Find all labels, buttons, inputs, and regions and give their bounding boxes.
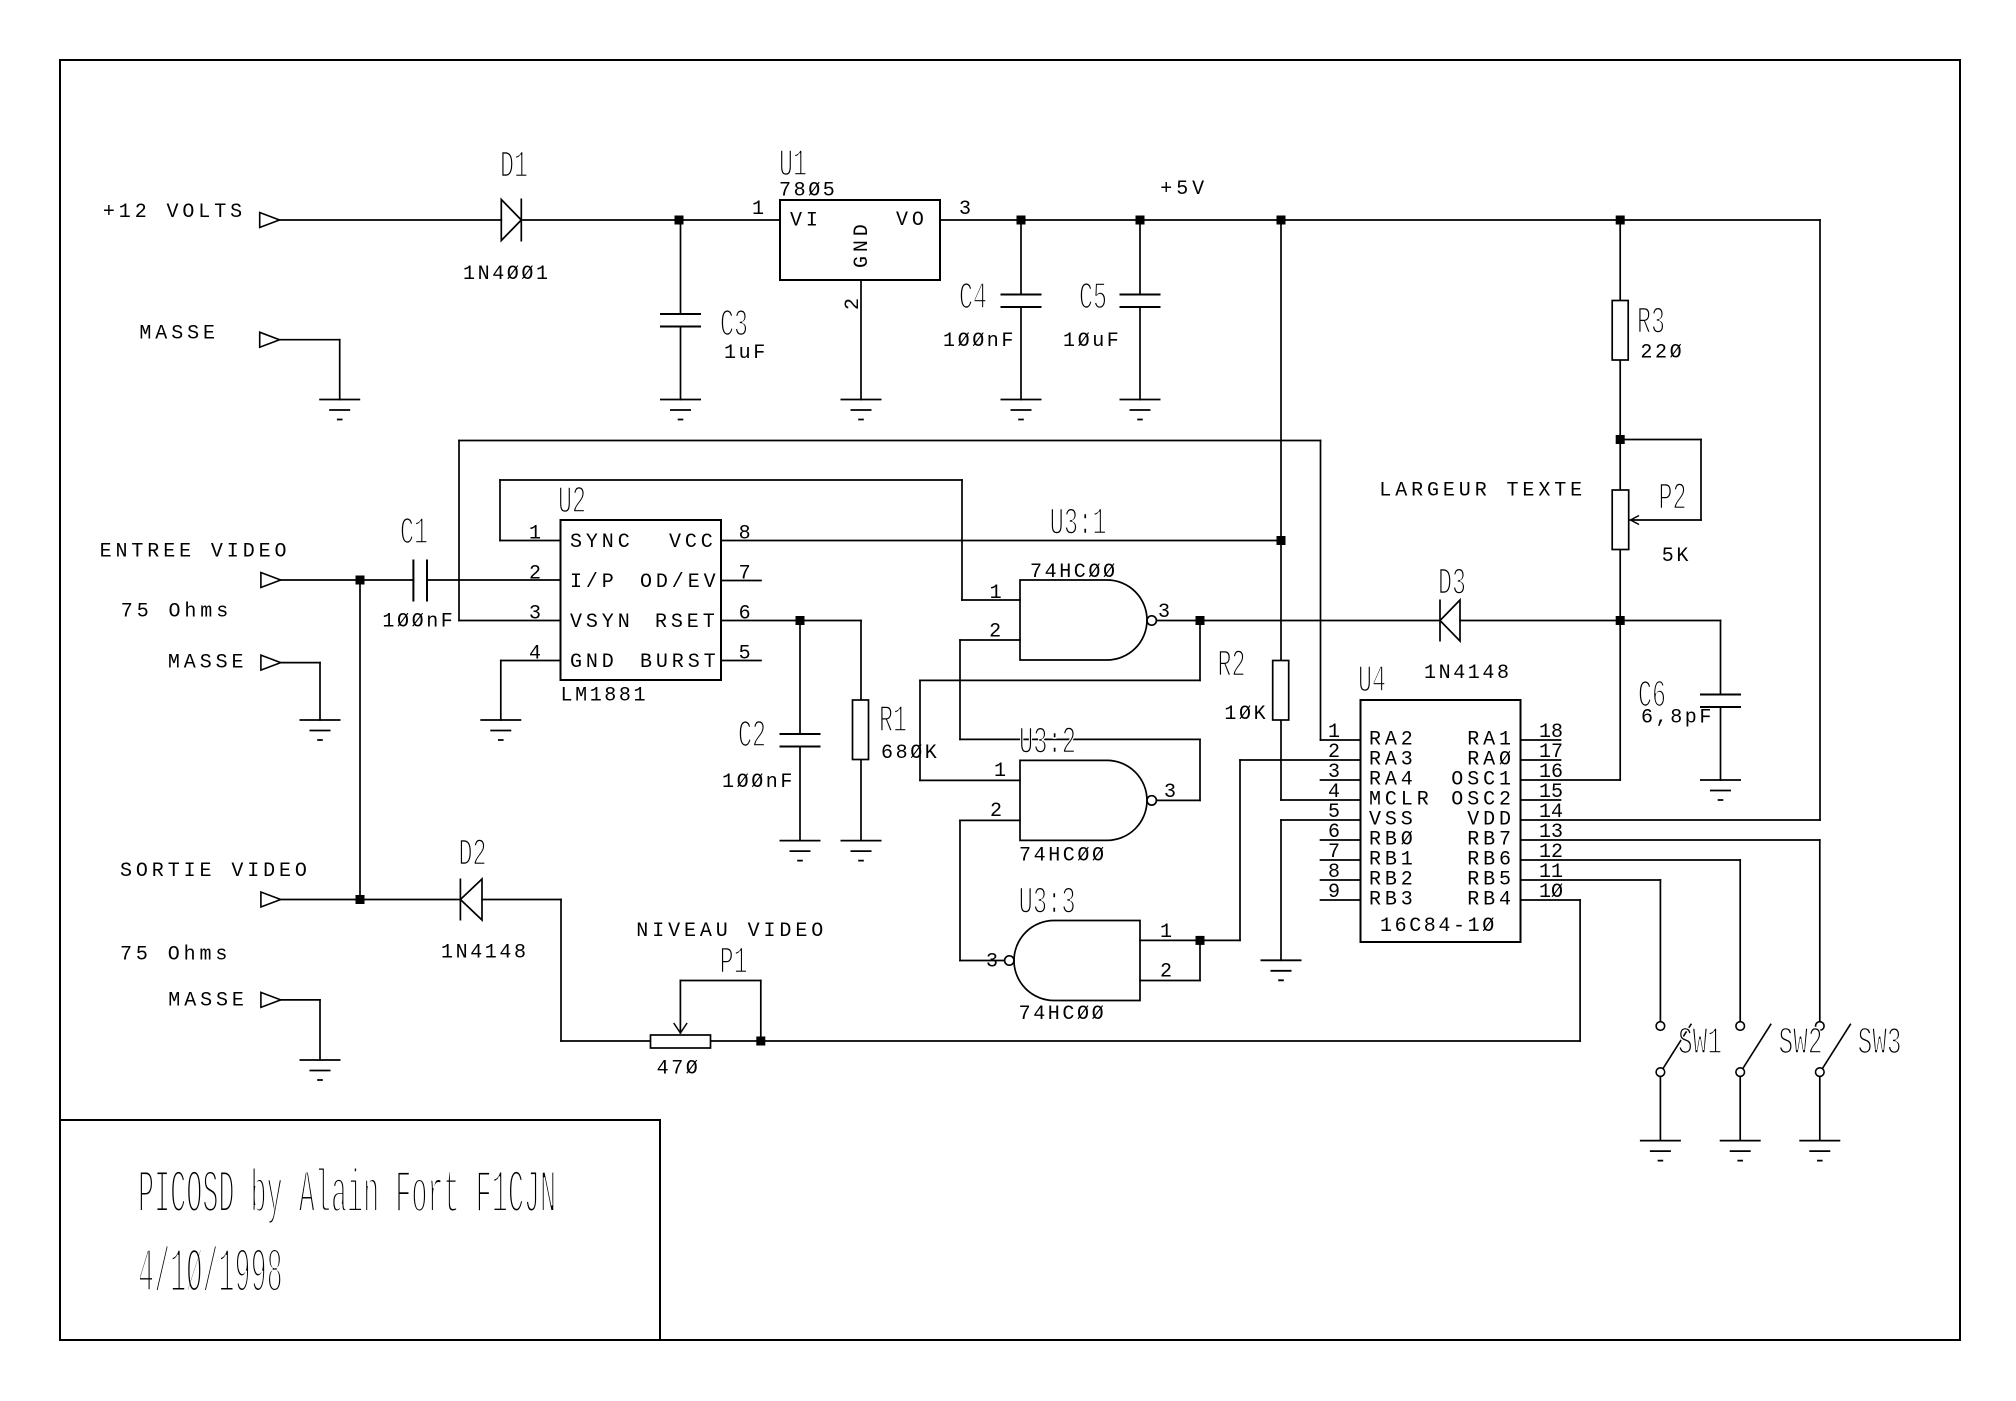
svg-text:75 Ohms: 75 Ohms	[121, 601, 232, 624]
svg-text:U3:1: U3:1	[1050, 502, 1107, 545]
svg-text:U4: U4	[1358, 660, 1386, 703]
svg-text:VSYN: VSYN	[570, 611, 634, 634]
svg-text:C4: C4	[959, 277, 987, 320]
svg-text:+5V: +5V	[1160, 178, 1208, 201]
svg-text:VO: VO	[896, 209, 928, 232]
svg-text:2: 2	[842, 298, 865, 310]
svg-text:1: 1	[990, 582, 1002, 605]
svg-text:5K: 5K	[1662, 545, 1691, 568]
svg-text:1ØØnF: 1ØØnF	[943, 330, 1016, 353]
svg-text:9: 9	[1328, 881, 1340, 904]
svg-text:P1: P1	[720, 941, 748, 984]
svg-text:U3:2: U3:2	[1019, 722, 1076, 765]
svg-text:3: 3	[1164, 781, 1176, 804]
svg-text:1ØuF: 1ØuF	[1063, 330, 1121, 353]
svg-text:74HCØØ: 74HCØØ	[1030, 561, 1118, 584]
svg-text:BURST: BURST	[640, 651, 720, 674]
svg-text:R1: R1	[879, 700, 907, 743]
svg-text:+12 VOLTS: +12 VOLTS	[103, 201, 246, 224]
svg-text:C6: C6	[1638, 675, 1666, 718]
svg-text:SW2: SW2	[1779, 1022, 1823, 1065]
svg-text:1: 1	[529, 523, 541, 546]
svg-text:1Ø: 1Ø	[1539, 881, 1563, 904]
svg-text:D3: D3	[1438, 562, 1466, 605]
svg-text:P2: P2	[1659, 477, 1687, 520]
svg-text:RSET: RSET	[655, 611, 719, 634]
svg-text:C2: C2	[738, 715, 766, 758]
svg-text:8: 8	[739, 523, 751, 546]
svg-text:7: 7	[739, 563, 751, 586]
svg-text:1: 1	[1160, 921, 1172, 944]
svg-text:3: 3	[986, 950, 998, 973]
svg-text:1N4148: 1N4148	[441, 941, 529, 964]
svg-text:SW1: SW1	[1678, 1022, 1722, 1065]
svg-text:4/1Ø/1998: 4/1Ø/1998	[138, 1240, 283, 1310]
svg-text:ENTREE VIDEO: ENTREE VIDEO	[100, 540, 291, 563]
svg-text:3: 3	[959, 198, 971, 221]
svg-text:R3: R3	[1637, 302, 1665, 345]
svg-text:2: 2	[990, 800, 1002, 823]
svg-text:74HCØØ: 74HCØØ	[1019, 1003, 1107, 1026]
svg-text:LARGEUR TEXTE: LARGEUR TEXTE	[1379, 480, 1586, 503]
svg-text:I/P: I/P	[570, 571, 618, 594]
svg-text:6: 6	[739, 603, 751, 626]
svg-text:U1: U1	[779, 144, 807, 187]
svg-text:U2: U2	[558, 481, 586, 524]
svg-text:2: 2	[1160, 961, 1172, 984]
svg-text:NIVEAU VIDEO: NIVEAU VIDEO	[636, 920, 827, 943]
svg-text:U3:3: U3:3	[1019, 882, 1076, 925]
svg-text:2: 2	[529, 563, 541, 586]
svg-text:OD/EV: OD/EV	[640, 571, 720, 594]
svg-text:MASSE: MASSE	[168, 652, 248, 675]
svg-text:SYNC: SYNC	[570, 531, 634, 554]
svg-text:GND: GND	[570, 651, 618, 674]
svg-text:C1: C1	[400, 512, 428, 555]
svg-text:D1: D1	[500, 146, 528, 189]
svg-text:MASSE: MASSE	[168, 990, 248, 1013]
svg-text:3: 3	[1158, 601, 1170, 624]
svg-text:VCC: VCC	[669, 531, 717, 554]
svg-text:C3: C3	[720, 304, 748, 347]
svg-text:1N4ØØ1: 1N4ØØ1	[463, 263, 551, 286]
svg-text:2: 2	[989, 621, 1001, 644]
svg-text:1N4148: 1N4148	[1424, 662, 1512, 685]
svg-text:SORTIE VIDEO: SORTIE VIDEO	[120, 860, 311, 883]
svg-text:74HCØØ: 74HCØØ	[1019, 844, 1107, 867]
svg-text:PICOSD by Alain Fort F1CJN: PICOSD by Alain Fort F1CJN	[138, 1162, 556, 1231]
svg-text:3: 3	[529, 603, 541, 626]
svg-text:VI: VI	[790, 210, 822, 233]
svg-text:5: 5	[739, 643, 751, 666]
svg-text:GND: GND	[851, 220, 874, 268]
svg-text:1ØK: 1ØK	[1224, 703, 1268, 726]
svg-text:SW3: SW3	[1858, 1022, 1902, 1065]
svg-text:22Ø: 22Ø	[1640, 341, 1684, 364]
svg-text:C5: C5	[1079, 277, 1107, 320]
svg-text:16C84-1Ø: 16C84-1Ø	[1380, 915, 1497, 938]
svg-text:MASSE: MASSE	[139, 322, 219, 345]
svg-text:RB3: RB3	[1369, 889, 1417, 912]
svg-text:75 Ohms: 75 Ohms	[120, 943, 231, 966]
svg-text:LM1881: LM1881	[561, 685, 649, 708]
svg-text:RB4: RB4	[1467, 889, 1515, 912]
svg-text:1ØØnF: 1ØØnF	[382, 611, 455, 634]
svg-text:1ØØnF: 1ØØnF	[722, 771, 795, 794]
svg-text:68ØK: 68ØK	[881, 742, 939, 765]
svg-text:47Ø: 47Ø	[657, 1057, 701, 1080]
svg-text:D2: D2	[459, 834, 487, 877]
svg-text:4: 4	[529, 643, 541, 666]
svg-text:1: 1	[752, 198, 764, 221]
svg-text:R2: R2	[1218, 644, 1246, 687]
svg-text:1: 1	[994, 760, 1006, 783]
